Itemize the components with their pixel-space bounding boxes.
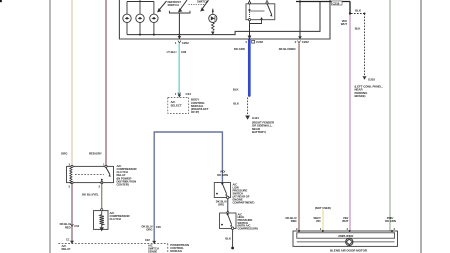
svg-text:ORG: ORG xyxy=(61,151,68,155)
svg-text:CLUTCH: CLUTCH xyxy=(110,217,121,221)
svg-text:BLK: BLK xyxy=(225,236,231,240)
svg-text:G202: G202 xyxy=(368,78,375,82)
svg-text:COMPARTMENT): COMPARTMENT) xyxy=(233,200,255,204)
svg-text:C22: C22 xyxy=(145,238,150,242)
svg-text:C218: C218 xyxy=(333,1,340,5)
svg-text:DK GRN: DK GRN xyxy=(385,219,396,223)
svg-text:LT BLU: LT BLU xyxy=(167,50,177,54)
svg-text:BLK: BLK xyxy=(233,102,239,106)
svg-text:C202: C202 xyxy=(302,40,309,44)
svg-text:C26: C26 xyxy=(156,225,161,229)
svg-text:DK GRN: DK GRN xyxy=(234,47,245,51)
svg-text:C1: C1 xyxy=(66,238,70,242)
svg-text:SWITCH: SWITCH xyxy=(168,3,179,7)
svg-text:RED: RED xyxy=(65,225,71,229)
svg-text:C96: C96 xyxy=(181,50,187,54)
svg-text:BLK: BLK xyxy=(355,8,362,12)
svg-text:RED: RED xyxy=(291,219,297,223)
svg-text:C202: C202 xyxy=(256,40,263,44)
svg-text:MODULE: MODULE xyxy=(170,249,182,253)
svg-text:RELAY: RELAY xyxy=(62,247,71,251)
svg-text:COMPRESSOR): COMPRESSOR) xyxy=(238,226,258,230)
svg-text:ORG: ORG xyxy=(146,228,152,232)
svg-text:SELECT: SELECT xyxy=(171,103,182,107)
svg-text:SENSE: SENSE xyxy=(148,250,157,253)
svg-text:BLK: BLK xyxy=(355,27,361,31)
svg-text:BLEND AIR DOOR MOTOR: BLEND AIR DOOR MOTOR xyxy=(330,249,368,253)
svg-text:ORG: ORG xyxy=(218,203,224,207)
svg-text:BRAKE): BRAKE) xyxy=(355,94,366,98)
svg-text:DK BLU/YEL: DK BLU/YEL xyxy=(82,193,99,197)
svg-text:C24: C24 xyxy=(186,92,192,96)
svg-text:WHT: WHT xyxy=(342,219,349,223)
svg-text:AMPLIFIER: AMPLIFIER xyxy=(338,234,354,238)
svg-text:CENTER): CENTER) xyxy=(117,183,129,187)
svg-text:BLK: BLK xyxy=(233,87,239,91)
svg-text:(NOT USED): (NOT USED) xyxy=(315,206,331,210)
svg-text:C202: C202 xyxy=(182,41,189,45)
svg-text:RED/GRY: RED/GRY xyxy=(89,151,102,155)
svg-text:WHT: WHT xyxy=(341,22,348,26)
svg-text:BATTERY): BATTERY) xyxy=(252,130,266,134)
svg-text:SWITCH: SWITCH xyxy=(197,0,208,4)
svg-text:DK BLU/RED: DK BLU/RED xyxy=(279,47,296,51)
svg-text:OF IP): OF IP) xyxy=(191,110,199,114)
svg-text:DK GRN: DK GRN xyxy=(217,173,228,177)
svg-text:C10: C10 xyxy=(74,224,79,228)
